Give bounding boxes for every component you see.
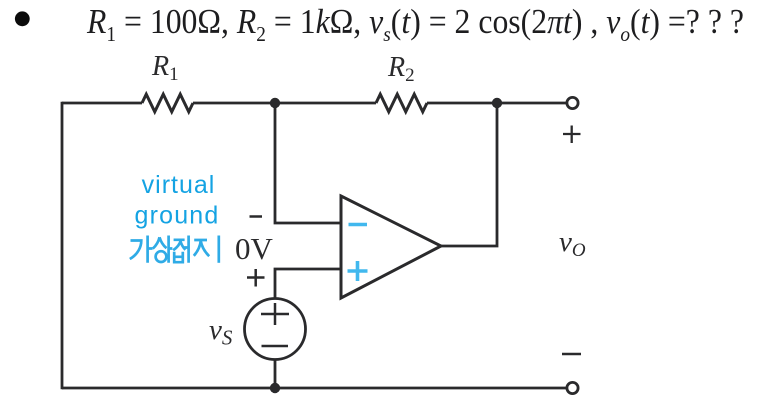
syllable GA <box>130 241 142 260</box>
node B (output node) <box>492 98 502 108</box>
wire: node A down to inverting input <box>275 103 341 223</box>
syllable JI <box>194 240 209 256</box>
wire: left rail <box>61 102 64 390</box>
syllable SANG <box>153 237 167 248</box>
wire: source bottom to ground rail <box>274 360 277 389</box>
voltage source VS (circle) <box>245 299 306 360</box>
label plus at output terminal <box>563 126 581 144</box>
svg-text:R2: R2 <box>387 52 415 86</box>
op-amp noninverting input mark (cyan plus) <box>348 261 368 281</box>
wire: bottom rail <box>62 387 567 390</box>
terminal: output plus (open circle) <box>567 97 578 108</box>
node A (inverting input node) <box>270 98 280 108</box>
svg-text:0V: 0V <box>235 231 274 266</box>
wire: noninverting input to source top <box>275 269 341 299</box>
label plus at noninverting input <box>247 269 265 287</box>
wire: op-amp output to node B <box>441 103 497 246</box>
svg-text:vO: vO <box>559 226 586 261</box>
node: source ground junction <box>270 383 280 393</box>
VS minus mark <box>262 345 289 348</box>
wire: node A to R2 <box>275 102 376 105</box>
syllable JEOB <box>173 240 185 250</box>
svg-text:R1: R1 <box>151 51 179 85</box>
resistor R2 <box>376 94 427 112</box>
resistor R1 <box>142 94 193 112</box>
wire: node B to plus terminal <box>497 102 567 105</box>
op-amp U1 <box>341 196 441 298</box>
label 가상접지 (Hangul drawn as strokes) <box>130 236 219 263</box>
wire: R1 to node A <box>193 102 275 105</box>
svg-text:virtual: virtual <box>142 171 216 199</box>
label minus at inverting input <box>250 215 263 218</box>
wire: R2 to node B <box>427 102 497 105</box>
op-amp inverting input mark (cyan minus) <box>349 223 368 227</box>
VS plus mark <box>261 303 289 325</box>
wire: top-left segment <box>62 102 142 105</box>
svg-text:ground: ground <box>134 202 219 230</box>
terminal: output minus (open circle) <box>567 382 578 393</box>
formula title: R1 = 100ohm, R2 = 1kohm, vs(t)=2cos(2pit), vo(t)=??? <box>87 3 744 42</box>
label minus at output terminal <box>562 353 581 356</box>
svg-text:vS: vS <box>209 314 233 350</box>
